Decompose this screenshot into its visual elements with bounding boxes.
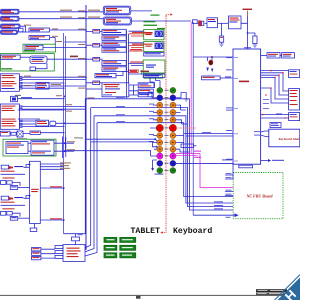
component crosses group1 — [155, 31, 162, 36]
keyboard matrix box — [269, 129, 303, 147]
U16 inner pin text left — [234, 57, 238, 161]
LED B small box R11 — [10, 216, 17, 220]
wire J2 to header H2 — [19, 18, 103, 20]
label usb mouse green — [24, 50, 35, 51]
svg-text:TABLET: TABLET — [131, 227, 161, 236]
pin row labels between columns — [165, 90, 169, 171]
red net text a — [132, 32, 146, 33]
net label HDR1 — [88, 10, 100, 11]
wire red dip to cluster c — [129, 50, 144, 52]
wire usb mouse to bus — [43, 47, 86, 49]
deck switch box SW1 — [202, 76, 221, 80]
label under col1 — [155, 174, 164, 175]
red dashed arrowhead top — [171, 13, 173, 15]
wire RJ — [35, 63, 47, 68]
wire col2 row3 to bundle — [181, 110, 188, 124]
wire boxA to U6 — [22, 85, 36, 87]
wire boxB y106.5 — [22, 106, 86, 108]
pin stub S2 — [55, 251, 63, 254]
bus stub y42 — [65, 41, 87, 43]
wire EC right 2 — [40, 166, 63, 168]
wire C2 tap — [248, 33, 255, 36]
wire U15 to vcc vertical — [241, 16, 248, 49]
wire function left — [86, 88, 102, 90]
magenta bus vertical — [190, 22, 192, 154]
pin column 1 connector CN3 — [156, 87, 163, 173]
kbd sub box B2 — [138, 89, 153, 93]
wire MK1 to bus — [18, 98, 65, 100]
LED A diode — [9, 166, 13, 169]
wire indicators to pin col — [150, 77, 160, 88]
wire H1 right — [131, 10, 152, 12]
resistor col2 R20 — [181, 144, 194, 148]
wire boxA y77 — [22, 76, 86, 78]
pin stubs col2 right — [176, 98, 184, 149]
net label rail stub — [78, 234, 83, 235]
green power group — [143, 60, 165, 73]
usb mouse power box U3 — [25, 45, 43, 50]
wire rail stub down — [75, 234, 77, 237]
dip socket D2 — [102, 36, 126, 41]
red dashed top arrow — [166, 15, 171, 17]
mid bus verticals — [63, 137, 66, 159]
wire boxB y121 — [22, 120, 36, 122]
FRU stub labels — [214, 173, 232, 209]
wire boxA y88 — [22, 87, 65, 89]
green indicator box — [144, 75, 163, 79]
group2 red text2 — [146, 46, 152, 47]
label PAD mic — [15, 95, 21, 96]
compressor box U6 — [36, 83, 49, 90]
red dashed bottom bend — [163, 228, 167, 233]
group1 red text2 — [146, 34, 152, 35]
transistor audio cross box — [17, 131, 23, 137]
LED B resistor boxes — [1, 211, 13, 215]
net label num led — [50, 218, 62, 219]
wire loop to pin row9 — [91, 142, 157, 147]
wire EC caps led — [40, 187, 63, 189]
junction dot pin row9 — [156, 146, 158, 148]
resistor pack RP4 — [93, 81, 100, 85]
wires U16 right rows y70-78 — [261, 71, 289, 78]
wire U14 to U15 — [218, 22, 229, 24]
LED B diode — [9, 197, 13, 200]
magenta wire from pin — [176, 154, 233, 188]
wire boxA y83 — [22, 82, 65, 84]
wire blue L above col1 — [148, 92, 157, 98]
connector J3 — [1, 24, 21, 29]
green key box r1c1 — [104, 237, 117, 242]
down arrow wire col1 — [153, 160, 157, 168]
net label caps led — [50, 186, 62, 187]
wire EC num led — [40, 219, 63, 221]
pin label box P2 — [32, 252, 41, 255]
kb hub label box — [144, 53, 164, 56]
small box mid right — [270, 123, 281, 128]
violet bus vertical — [192, 22, 194, 215]
wire LED A out — [18, 186, 30, 188]
big EC interface box U16 — [233, 49, 261, 164]
connector RJ small — [30, 67, 35, 71]
wire boxB y124 — [22, 123, 36, 125]
junction dot C2 — [247, 32, 249, 34]
hook wire col2 top — [181, 93, 186, 99]
svg-text:Keyboard Matrix: Keyboard Matrix — [278, 137, 301, 141]
speaker box SP1 — [29, 28, 50, 32]
cap C1 drop — [221, 23, 223, 36]
pin number marks col2 — [172, 90, 174, 171]
svg-text:NC FRU Board: NC FRU Board — [246, 194, 274, 199]
right box RB2 keyboard ctrl — [289, 89, 300, 110]
net label HDR2 — [88, 17, 100, 18]
right staircase labels — [263, 99, 282, 114]
down arrowhead — [151, 168, 154, 171]
wire R20 right — [194, 145, 197, 147]
pin stub labels col1 — [149, 104, 154, 142]
KSI label — [254, 130, 260, 133]
label PS2 KDAT — [222, 159, 232, 160]
title block row2 — [256, 293, 287, 296]
net label MIC_IN — [60, 17, 72, 18]
wires U11 to subs — [129, 85, 138, 95]
green opto group 2 — [144, 42, 164, 52]
red refdes C883157 — [239, 81, 249, 83]
wire LED B row3 — [12, 213, 20, 217]
wire LED B row2 — [1, 204, 26, 206]
LED A red text row — [1, 171, 15, 172]
label above loop wire — [74, 137, 83, 138]
top tap box pink bus — [192, 20, 197, 24]
red junction dots right — [262, 70, 286, 119]
dip socket D3 — [102, 42, 126, 47]
wire camera stub y119 — [18, 118, 40, 120]
LED B label — [14, 197, 23, 198]
pin stubs col1 left — [150, 105, 157, 149]
small box G1 — [72, 237, 80, 241]
mic bottom comp — [11, 132, 16, 135]
green key box r2c2 — [120, 245, 136, 250]
KSO label — [254, 134, 260, 137]
net label PAD 47 — [141, 71, 150, 73]
pin label box P3 — [32, 256, 41, 259]
FRU bottom label — [226, 216, 231, 219]
red dashed arrowhead bottom — [160, 231, 162, 233]
wire RP3 — [86, 58, 103, 60]
green label mini — [144, 25, 158, 26]
bottom connector CN2 — [63, 245, 85, 262]
wire red dip to cluster a — [129, 34, 153, 36]
dip socket D6 — [102, 67, 126, 72]
transistor pair dot — [211, 56, 213, 58]
component crosses group2 — [155, 43, 162, 48]
group1 red text — [146, 32, 153, 33]
wire J3 bend down — [20, 26, 26, 32]
wire boxB y126.6 — [22, 126, 65, 128]
wire LED A — [24, 165, 30, 168]
header H1 — [103, 6, 131, 15]
wire keyboard matrix rows right — [184, 134, 233, 136]
wire U8 to bus — [56, 122, 86, 124]
wire H2 right to pink bus — [132, 20, 192, 22]
wire mic bottom to bus — [40, 132, 64, 134]
extra net smudges top — [24, 25, 58, 86]
resistor pack RP2 — [93, 43, 100, 47]
sheet border line bottom — [0, 294, 300, 296]
wire D7 right — [116, 71, 128, 75]
wire G1 to connector — [75, 241, 77, 245]
green group card reader — [3, 139, 56, 156]
LED A label — [14, 166, 23, 167]
rocker box BA — [267, 53, 280, 58]
wire SP2 down to USB area — [50, 38, 55, 45]
opto component 1a — [155, 31, 163, 37]
KSI KSO wires — [261, 131, 269, 136]
power switch box U15 — [229, 16, 242, 29]
wire mic bottom — [10, 133, 30, 135]
usb hub box U5 — [30, 56, 47, 63]
wire col2 orange bends — [180, 149, 189, 152]
right box RB3 — [289, 113, 300, 121]
wire bus86 down to bottom rail — [64, 99, 86, 234]
resistor pack RP1 — [93, 29, 100, 33]
LED cluster A box — [1, 165, 8, 169]
magenta net text — [194, 151, 201, 152]
svg-text:Keyboard: Keyboard — [173, 226, 212, 236]
wire J4 to R5 — [18, 31, 30, 33]
pin column 2 connector CN4 — [169, 87, 176, 173]
wire transistor taps — [193, 57, 233, 61]
pin number marks col1 — [159, 90, 161, 171]
FRU stub wires — [225, 164, 233, 195]
watermark inner stripe — [275, 275, 300, 300]
ground C1 — [219, 42, 224, 46]
diode arrows down — [206, 68, 213, 73]
nested bus loop line 3 — [85, 116, 233, 252]
wire card to mid bus b — [54, 150, 74, 152]
connector box B camera panel — [0, 104, 19, 129]
bus86 net label smudges — [78, 10, 95, 98]
net label +5V USB — [243, 9, 253, 10]
net label tick — [247, 11, 249, 16]
red dashed vertical partition — [165, 16, 167, 228]
L wires into RB3 — [261, 115, 289, 118]
green key box r1c2 — [120, 237, 136, 242]
wire RP2 — [86, 44, 103, 46]
tiny label above matrix rows — [202, 131, 211, 134]
green label top cluster — [151, 15, 160, 16]
red net text d — [130, 61, 143, 62]
box A pin stubs — [19, 77, 22, 89]
U16 left pin labels — [226, 57, 233, 160]
ground col2 top — [184, 99, 189, 101]
border tick mark — [136, 296, 141, 299]
power group text2 — [146, 67, 154, 68]
green group usb mouse — [23, 44, 56, 52]
junction dot pin row8 — [154, 138, 156, 140]
net label AUD — [51, 84, 61, 85]
wire U6 to bus — [49, 85, 86, 87]
card ctrl box U10 — [31, 140, 54, 155]
wire red dip to cluster b — [129, 46, 144, 48]
capacitor C1 — [219, 36, 223, 42]
net label card a — [67, 141, 75, 142]
LED B red text row — [1, 202, 15, 203]
short wire above function box — [103, 94, 112, 96]
net labels EC right — [60, 162, 71, 169]
connector J2 audio jack — [1, 16, 20, 21]
connector J1 audio jack — [1, 9, 20, 14]
barcode box BB — [282, 53, 295, 58]
LED A resistor boxes — [1, 181, 13, 185]
connector box A audio panel — [0, 74, 19, 92]
nested bus loop line 1 — [86, 99, 233, 210]
resistor R5 — [19, 28, 24, 32]
label kb docking green — [1, 68, 12, 69]
mic bottom box — [0, 131, 10, 136]
pin label box P1 — [32, 248, 41, 251]
usb power board box U4 — [1, 55, 20, 59]
wire BA to BB — [280, 54, 282, 56]
green label above group1 — [157, 28, 165, 29]
indicators box — [143, 74, 165, 78]
ground C2 — [253, 44, 257, 48]
EC chip U12 — [30, 161, 41, 223]
wire SW1 to big box — [220, 77, 233, 79]
bus junction dots — [64, 11, 87, 152]
green key box r3c1 — [104, 253, 117, 258]
LED A small box R10 — [10, 186, 17, 190]
ferrite bead FB1 — [197, 21, 204, 26]
speaker box SP2 — [29, 36, 50, 40]
red wire col2 red pin — [176, 127, 196, 129]
wire green drop — [141, 70, 143, 75]
opto component 2a — [155, 43, 163, 49]
wire LED B out — [18, 217, 30, 219]
LC filter box U14 — [207, 18, 218, 28]
transistor Q1 oval — [209, 60, 213, 65]
wires P to S — [41, 249, 55, 258]
wire LED A row2 — [1, 173, 26, 175]
red net text b — [132, 44, 146, 45]
green opto group 1 — [144, 29, 164, 39]
wire blue dip to cluster — [129, 31, 144, 74]
group2 red text — [146, 44, 153, 45]
red net text c — [130, 49, 142, 50]
vertical bus mid-left — [64, 33, 66, 234]
FRU arrow head — [235, 213, 239, 217]
wire bus to magenta pin — [65, 151, 157, 156]
magenta wire second — [176, 155, 198, 157]
EC bottom stub to X1 — [34, 224, 36, 229]
cap C2 — [253, 36, 257, 44]
pin stub S3 — [55, 255, 63, 258]
wire card to mid bus a — [54, 142, 74, 144]
bus64 net label smudges — [56, 41, 72, 112]
wire J1 to header H1 — [19, 11, 103, 13]
NC FRU board dashed box — [233, 173, 283, 219]
label mic constant — [17, 138, 27, 139]
wire U16 right to rocker boxes — [261, 54, 267, 56]
audio codec U7 — [36, 120, 49, 126]
dip socket D1 — [102, 29, 126, 34]
connector J4 — [1, 30, 18, 34]
FRU bottom arrow — [193, 214, 234, 216]
indicator box D7 — [95, 73, 116, 77]
box B pin stubs — [19, 106, 22, 128]
watermark small text marks — [294, 295, 298, 300]
magenta net text2 — [194, 157, 201, 158]
wire EC right 3 — [40, 168, 63, 170]
title block text lines — [258, 290, 284, 294]
wire FB1 to U14 — [205, 22, 207, 24]
net label SW — [225, 76, 231, 77]
microphone MK1 — [11, 96, 18, 101]
LED cluster B box — [1, 196, 8, 200]
title block row1 — [256, 289, 287, 292]
LED A red text row2 — [3, 177, 15, 178]
net label PAD47 — [70, 56, 78, 58]
mic bottom label box — [30, 131, 40, 134]
wire KDAT out right — [261, 160, 268, 162]
dip socket D5 — [102, 61, 126, 66]
buffer U8 — [50, 121, 56, 125]
wire U9-U10 b — [28, 150, 31, 152]
nested bus loop line 2 — [85, 108, 233, 248]
header H2 — [103, 17, 131, 25]
red cap box — [129, 70, 138, 72]
nested bus loop line 4 — [85, 123, 233, 256]
wire RP4 — [86, 82, 102, 84]
wire boxB y109.2 — [22, 108, 86, 110]
wire U4 to U5 — [20, 56, 30, 58]
vertical pair right of dips — [127, 31, 129, 99]
main vertical bus left — [85, 5, 87, 250]
green group usb keyboard hub — [1, 54, 55, 71]
green key box r2c1 — [104, 245, 117, 250]
EC junction dots — [29, 164, 65, 222]
net label LINE_OUT — [60, 10, 72, 11]
power group text — [146, 65, 156, 66]
wire RP1 — [86, 30, 103, 32]
LED B red text row2 — [3, 208, 15, 209]
wire col2 blue long to EC box — [176, 162, 234, 164]
U16 refdes — [244, 47, 251, 48]
resistor pack RP3 — [93, 57, 100, 61]
wire LED B — [24, 196, 30, 199]
dip socket D4 — [102, 48, 126, 53]
wire LED A row3 — [12, 182, 20, 186]
KDAT out label — [272, 160, 284, 161]
net label card b — [67, 149, 75, 150]
KDAT arrow — [268, 159, 271, 162]
wire EC right 1 — [40, 163, 63, 165]
wire camera stub y110 — [18, 109, 65, 111]
right box RB1 — [289, 70, 300, 78]
wire U5 to bus — [47, 58, 86, 60]
crystal X1 — [30, 228, 37, 232]
kbd sub box B3 — [138, 93, 153, 97]
green key box r3c2 — [120, 253, 136, 258]
wire U9-U10 a — [28, 142, 31, 144]
loop bus labels — [116, 97, 125, 122]
wire boxA y79.5 — [22, 79, 86, 81]
wire loop to pin row8 — [86, 139, 157, 141]
L wires into RB2 — [261, 73, 289, 103]
card reader box U9 — [6, 142, 28, 154]
label SPK mini — [21, 97, 32, 98]
pin stub S1 — [55, 246, 63, 249]
watermark corner triangle — [278, 278, 301, 300]
